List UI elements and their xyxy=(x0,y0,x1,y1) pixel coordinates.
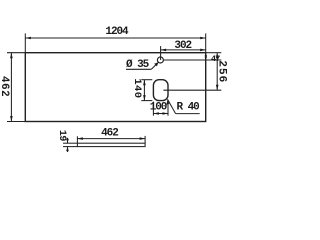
dimension 100: right extension line xyxy=(167,102,169,116)
arrowhead 302 left xyxy=(161,49,167,52)
arrowhead 462 bottom xyxy=(10,116,13,122)
arrowhead 302 right xyxy=(200,49,206,52)
arrowhead small offset dim up xyxy=(205,54,207,58)
arrowhead 1204 left xyxy=(25,37,31,40)
side view bar outline xyxy=(77,143,145,146)
arrowhead small offset dim down xyxy=(205,55,207,59)
wire: cutout centerline extension to right for 256 dim xyxy=(163,89,221,91)
faucet hole circle diameter 35 xyxy=(157,57,163,63)
arrowhead 462 top xyxy=(10,53,13,59)
arrowhead diameter-35 leader at circle xyxy=(154,62,158,66)
leader diameter-35: diagonal to circle xyxy=(151,62,158,69)
svg-text:100: 100 xyxy=(150,101,167,113)
dimension 140: bottom extension line xyxy=(141,100,152,102)
arrowhead 1204 right xyxy=(200,37,206,40)
dimension 100: left extension line xyxy=(152,102,154,116)
wire: bar bottom edge extension left for 19 dim xyxy=(63,146,77,148)
wire: bottom edge extension left for 462 dim xyxy=(7,121,25,123)
svg-text:47: 47 xyxy=(211,54,220,64)
svg-text:462: 462 xyxy=(101,128,118,140)
svg-text:Ø 35: Ø 35 xyxy=(126,59,150,71)
leader R40: horizontal underline xyxy=(176,113,200,115)
wire: top edge extension left for 462 dim xyxy=(7,52,25,54)
leader R40: diagonal from cutout corner xyxy=(168,99,176,113)
svg-text:302: 302 xyxy=(174,40,191,52)
arrowhead 256 bottom xyxy=(216,85,219,91)
dimension 1204: right extension line xyxy=(205,33,207,52)
arrowhead 140 bottom xyxy=(143,95,146,101)
dimension 19: dimension line below xyxy=(67,147,69,152)
arrowhead 100 right xyxy=(163,112,169,115)
dimension 19: dimension line above xyxy=(67,138,69,143)
dimension 462: dimension line (left side) xyxy=(10,53,12,122)
dimension 256: dimension line xyxy=(216,53,218,90)
svg-text:R 40: R 40 xyxy=(177,102,200,114)
svg-text:19: 19 xyxy=(56,130,67,142)
wire: top edge extension right for 256 dim xyxy=(206,52,222,54)
dimension 462 bottom: dimension line xyxy=(77,138,145,140)
dimension 462 bottom: right extension line xyxy=(144,136,146,143)
arrowhead 140 top xyxy=(143,80,146,86)
dimension 140: top extension line xyxy=(141,79,152,81)
wire: bar top edge extension left for 19 dim xyxy=(63,142,77,144)
arrowhead 462-bottom right xyxy=(140,137,146,140)
svg-text:462: 462 xyxy=(0,76,10,97)
dimension 140: dimension line xyxy=(143,80,145,101)
leader diameter-35: horizontal underline xyxy=(126,68,151,70)
arrowhead 19 bottom (points up) xyxy=(66,147,69,152)
arrowhead R40 leader at cutout corner xyxy=(167,99,170,104)
sink cutout rounded rectangle xyxy=(153,80,168,101)
countertop outline (top view rectangle) xyxy=(25,53,205,122)
dimension 1204: dimension line xyxy=(25,37,205,39)
dimension 1204: left extension line xyxy=(24,33,26,52)
arrowhead 462-bottom left xyxy=(77,137,83,140)
arrowhead 19 top (points down) xyxy=(66,139,69,144)
dimension 462 bottom: left extension line xyxy=(76,136,78,143)
dimension 100: dimension line xyxy=(153,113,168,115)
dimension 302: extension line at circle centerline xyxy=(160,46,162,60)
wire: circle centerline extension to right xyxy=(164,59,221,61)
arrowhead 100 left xyxy=(153,112,159,115)
svg-text:140: 140 xyxy=(131,78,143,98)
svg-text:1204: 1204 xyxy=(105,26,129,38)
arrowhead 256 top xyxy=(216,53,219,59)
dimension 302: dimension line xyxy=(161,49,206,51)
